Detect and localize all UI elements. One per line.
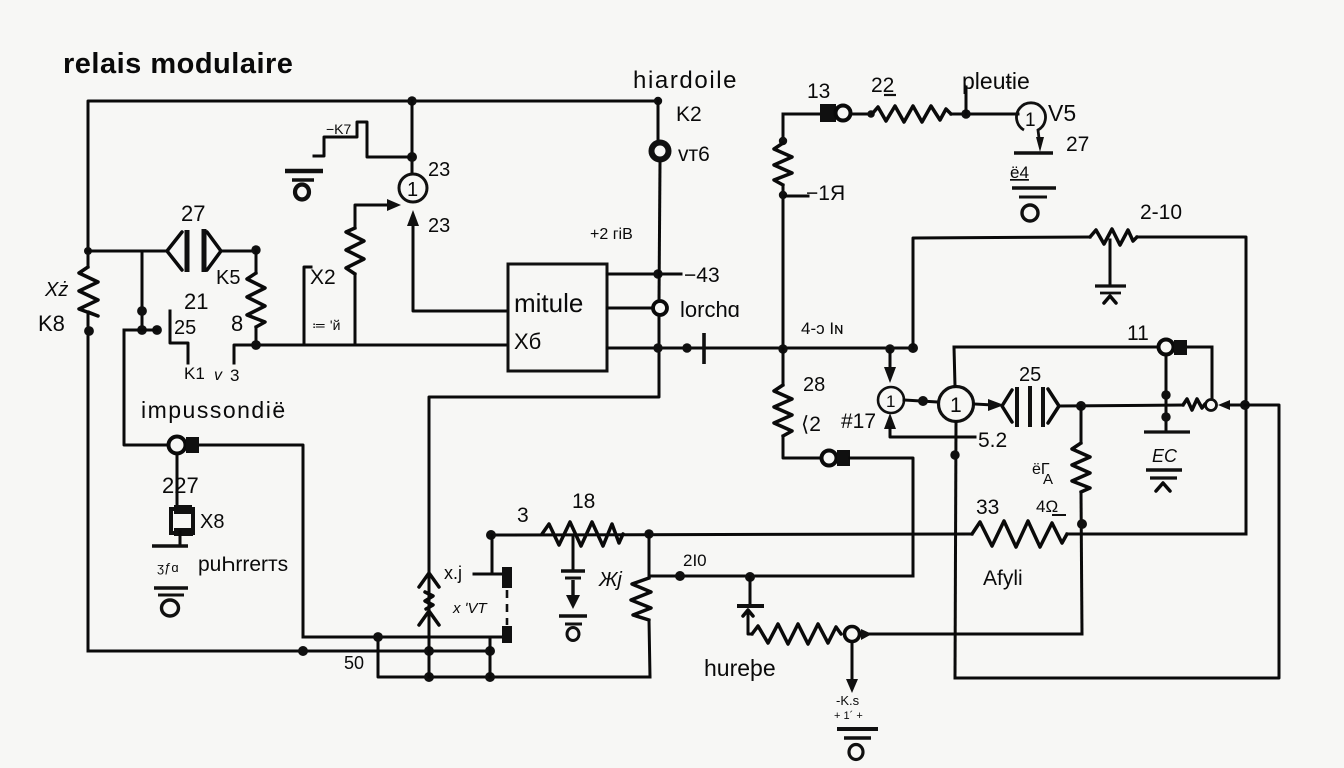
- trim resistor squiggle: [1183, 399, 1205, 410]
- resistor 27A vertical: [1080, 406, 1083, 443]
- pulse symbol K7: [314, 122, 410, 157]
- svg-text:3: 3: [230, 366, 239, 385]
- svg-text:X2: X2: [310, 266, 336, 289]
- svg-text:−43: −43: [684, 264, 720, 287]
- svg-text:Afylі: Afylі: [983, 567, 1023, 590]
- wire main mid rail: [885, 344, 894, 353]
- svg-text:50: 50: [344, 653, 364, 673]
- wire to right and down: [850, 458, 913, 576]
- wire box out bottom: [607, 347, 913, 350]
- wire top rail: [88, 101, 658, 267]
- svg-text:ʒƒɑ: ʒƒɑ: [157, 560, 179, 575]
- svg-text:−1Я: −1Я: [806, 182, 845, 205]
- resistor 2-10: [1090, 229, 1137, 245]
- cap to ground under 18: [572, 536, 575, 569]
- svg-text:hiardoile: hiardoile: [633, 67, 738, 94]
- wire down to summing circle: [411, 101, 414, 175]
- connector square impuls: [186, 437, 199, 453]
- wire amp up to top rail: [954, 347, 955, 386]
- svg-text:2-10: 2-10: [1140, 201, 1182, 224]
- surge arrester X5: [428, 572, 431, 677]
- svg-text:22: 22: [871, 74, 894, 97]
- contact wire: [474, 573, 503, 576]
- arrow mark below V5: [1036, 137, 1044, 152]
- connector square 2: [837, 450, 850, 466]
- connector square 11: [1174, 340, 1187, 355]
- wire box out 43: [607, 273, 681, 276]
- svg-text:x ʹVT: x ʹVT: [452, 600, 489, 617]
- connector circle 2: [822, 451, 837, 466]
- ground under V5: [1012, 188, 1056, 221]
- svg-text:227: 227: [162, 473, 199, 498]
- wire hurepe to 27A leg: [870, 633, 1082, 636]
- feedback arrow up: [884, 413, 896, 429]
- resistor 22: [872, 106, 951, 122]
- plate below X8: [179, 532, 182, 544]
- wire 33 to right rail: [1067, 533, 1246, 536]
- capacitor 27: [167, 229, 221, 272]
- wire drop to trim circle: [1211, 347, 1214, 399]
- svg-text:27: 27: [1066, 133, 1089, 156]
- svg-text:3: 3: [517, 504, 529, 527]
- mixer small circle 1: [878, 387, 904, 413]
- wire impuls branch: [124, 330, 303, 637]
- wire left leg of 18 rail: [491, 535, 494, 573]
- wire to resistor 22: [850, 113, 872, 116]
- svg-text:Х8: Х8: [200, 511, 224, 533]
- svg-text:#17: #17: [841, 410, 876, 433]
- svg-text:28: 28: [803, 374, 825, 396]
- wire top right rail: [954, 346, 1212, 349]
- svg-text:4Ω: 4Ω: [1036, 497, 1058, 516]
- wire box out lorcha: [607, 307, 652, 310]
- svg-text:Xб: Xб: [514, 329, 541, 354]
- svg-text:K1: K1: [184, 364, 205, 383]
- svg-text:18: 18: [572, 490, 595, 513]
- resistor 8: [255, 251, 258, 273]
- svg-text:v: v: [214, 367, 223, 384]
- svg-text:25: 25: [1019, 364, 1041, 386]
- svg-text:puҺrrerтs: puҺrrerтs: [198, 553, 288, 576]
- svg-text:lorchɑ: lorchɑ: [680, 297, 740, 322]
- svg-text:8: 8: [231, 311, 243, 336]
- wire bottom of divider to box: [234, 345, 507, 363]
- wire cap branch from left rail: [84, 247, 92, 255]
- wire X8 drop: [176, 454, 179, 507]
- arrow into trim: [1218, 400, 1230, 410]
- node pulse tap on riser: [407, 152, 417, 162]
- wire cap to resistor 8: [221, 250, 256, 253]
- wire 13 branch start: [783, 113, 820, 116]
- resistor 28: [782, 349, 785, 385]
- series bar connector: [702, 333, 706, 364]
- arrow down into mixer: [889, 349, 892, 371]
- contact pad bottom: [502, 626, 512, 643]
- node dot on left rail: [84, 326, 94, 336]
- svg-text:+ 1´ +: + 1´ +: [834, 710, 863, 722]
- wire right outer rail: [955, 405, 1279, 678]
- svg-text:hureþe: hureþe: [704, 655, 776, 681]
- svg-text:K8: K8: [38, 311, 65, 336]
- resistor 33: [972, 521, 1067, 547]
- arrowhead into circle 1 left: [387, 199, 401, 211]
- svg-text:K5: K5: [216, 267, 240, 289]
- stub down from cap wire: [142, 251, 157, 330]
- svg-text:27: 27: [181, 201, 205, 226]
- wire below circle 1 to mitule box: [413, 224, 507, 311]
- short jog at switch: [124, 329, 157, 332]
- arrow amp to cap 25: [974, 404, 994, 405]
- svg-text:1: 1: [950, 394, 962, 417]
- svg-text:EC: EC: [1152, 446, 1178, 466]
- svg-text:⟨2: ⟨2: [801, 413, 821, 436]
- ground under pulse: [285, 171, 323, 200]
- contact dashed gap: [506, 590, 509, 625]
- svg-text:1: 1: [886, 392, 895, 411]
- contact pad top: [502, 567, 512, 588]
- trim circle: [1206, 400, 1217, 411]
- connector circle 13: [836, 106, 851, 121]
- svg-text:Xż: Xż: [44, 279, 68, 301]
- svg-text:vт6: vт6: [678, 143, 710, 166]
- summing circle 1: [399, 174, 427, 202]
- pot tap ground: [1109, 240, 1112, 284]
- node dot top rail: [407, 96, 416, 105]
- svg-text:≔ ʹй: ≔ ʹй: [312, 317, 340, 333]
- bar 27 plate: [1014, 151, 1053, 154]
- svg-text:K2: K2: [676, 103, 702, 126]
- wire 210 rail: [650, 575, 913, 578]
- ground xfa: [154, 588, 188, 616]
- svg-text:25: 25: [174, 317, 196, 339]
- wire below K2: [659, 163, 660, 301]
- wire mixer to amp: [904, 400, 938, 402]
- svg-text:Жј: Жј: [598, 569, 622, 591]
- svg-text:-K.ѕ: -K.ѕ: [836, 693, 860, 708]
- svg-text:x.ј: x.ј: [444, 563, 462, 583]
- arrow down to Ks ground: [851, 642, 854, 685]
- wire below resistor: [782, 185, 785, 348]
- svg-text:13: 13: [807, 80, 830, 103]
- svg-text:23: 23: [428, 159, 450, 181]
- connector circle impuls: [169, 437, 186, 454]
- resistor hurepe: [752, 624, 841, 644]
- svg-text:4-ɔ Iɴ: 4-ɔ Iɴ: [801, 319, 843, 338]
- svg-text:2I0: 2I0: [683, 551, 707, 570]
- wire A bus: [303, 636, 505, 639]
- crystal X8: [171, 505, 193, 536]
- ground under cap: [559, 616, 587, 641]
- wire 2-10 to right rail: [1137, 237, 1246, 534]
- connector circle 11: [1159, 340, 1174, 355]
- resistor Xj vertical: [648, 534, 651, 578]
- svg-text:23: 23: [428, 215, 450, 237]
- bracket X2: [304, 267, 311, 343]
- wire cap 25 out: [1060, 405, 1183, 406]
- svg-text:1: 1: [407, 179, 418, 201]
- svg-text:A: A: [1043, 471, 1053, 488]
- svg-text:mitule: mitule: [514, 288, 583, 318]
- svg-text:impussondiё: impussondiё: [141, 397, 287, 423]
- wire 50 bus: [88, 650, 490, 653]
- svg-text:11: 11: [1127, 322, 1149, 345]
- cap drop hurepe: [749, 577, 752, 604]
- svg-text:+2 гіB: +2 гіB: [590, 226, 633, 243]
- svg-text:ё4: ё4: [1010, 163, 1029, 182]
- svg-text:33: 33: [976, 496, 999, 519]
- wire mid rail up right: [913, 237, 1090, 348]
- amp circle 1: [939, 387, 974, 422]
- connector circle lorcha: [653, 301, 667, 315]
- EC plate: [1144, 430, 1190, 433]
- lamp K2: [652, 143, 669, 160]
- arrowhead up into circle 1: [407, 210, 419, 226]
- wire resistor to V5: [951, 113, 1018, 116]
- wire EC drop: [1165, 354, 1168, 431]
- arrow out of hurepe: [861, 629, 872, 640]
- svg-text:V5: V5: [1048, 100, 1076, 126]
- resistor -18: [774, 143, 792, 185]
- lamp loop V5: [1017, 103, 1046, 146]
- svg-text:relais modulaire: relais modulaire: [63, 48, 293, 80]
- ground Ks: [837, 729, 878, 760]
- switch blade bar: [170, 311, 188, 363]
- wire C bus: [378, 637, 650, 677]
- wire 33 rail: [491, 534, 972, 535]
- svg-text:21: 21: [184, 289, 208, 314]
- svg-text:pleuŧie: pleuŧie: [962, 68, 1030, 94]
- resistor K8: [79, 267, 98, 316]
- pleutie leader: [965, 87, 968, 114]
- resistor 18: [542, 522, 623, 546]
- svg-text:5.2: 5.2: [978, 429, 1007, 452]
- capacitor 25: [1002, 386, 1059, 427]
- wire vertical 490: [489, 637, 492, 677]
- wire left drop of 13 branch: [782, 114, 785, 143]
- resistor X2 vertical: [354, 274, 357, 343]
- svg-text:1: 1: [1025, 110, 1036, 131]
- mitule box: [508, 264, 607, 371]
- svg-text:−K7: −K7: [326, 121, 352, 137]
- wire amp down: [955, 422, 956, 678]
- wire K2 drop: [654, 97, 662, 105]
- connector square 13: [820, 104, 836, 122]
- connector circle hurepe: [845, 627, 860, 642]
- ground EC: [1146, 470, 1182, 491]
